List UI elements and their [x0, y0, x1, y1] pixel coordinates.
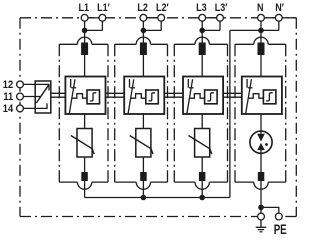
spark gap F4 electrode diagonal	[246, 79, 252, 113]
disconnect terminal top module L2	[140, 43, 147, 56]
wire L3 terminal down to module	[201, 21, 203, 76]
wire L3-prime terminal down	[219, 21, 221, 30]
wire L1 terminal link	[88, 17, 99, 19]
wire N node to PE bus riser	[230, 29, 261, 31]
ground symbol	[256, 220, 267, 232]
terminal L3-prime	[217, 14, 224, 21]
svg-text:N: N	[257, 2, 264, 14]
wire L3 terminal link	[206, 17, 217, 19]
terminal 14	[17, 105, 24, 112]
spark gap F1 electrode diagonal	[69, 79, 75, 113]
wire module L2 bottom to bus	[142, 181, 144, 198]
trigger circuit connection step line	[72, 94, 87, 99]
mechanical link module L1 to module L2	[106, 93, 125, 97]
enclosure border top	[20, 17, 296, 19]
remote signalling contact box	[35, 81, 51, 113]
spark gap F2 electrode tick	[130, 87, 135, 89]
spark gap unit F3 module L3 box	[183, 77, 223, 115]
wire terminal 12 to contact	[24, 84, 49, 90]
node N junction	[258, 28, 264, 34]
module L2 bottom plug-in arc	[136, 182, 150, 189]
terminal N	[258, 14, 265, 21]
terminal ground	[258, 213, 265, 220]
spark gap unit F1 module L1 box	[65, 77, 105, 115]
disconnect terminal top module L3	[199, 43, 206, 56]
disconnect terminal top module N	[258, 43, 265, 56]
varistor R2 module L2	[130, 129, 153, 158]
terminal bottom module L3	[199, 172, 206, 181]
trigger unit step symbol	[266, 93, 273, 101]
spark gap unit F4 module N box	[242, 77, 282, 115]
wire L1-prime terminal down	[101, 21, 103, 30]
terminal bottom module N	[258, 172, 265, 181]
wire terminal 11 to contact	[24, 96, 41, 98]
svg-text:14: 14	[3, 103, 14, 115]
node bus L2 junction	[141, 195, 147, 201]
wire L2 terminal down to module	[142, 21, 144, 76]
terminal 12	[17, 81, 24, 88]
spark gap F3 electrode diagonal	[187, 79, 193, 113]
svg-text:11: 11	[3, 91, 13, 103]
gas discharge tube N-PE	[250, 131, 272, 153]
svg-text:PE: PE	[274, 222, 287, 237]
wire PE bus riser	[229, 30, 231, 197]
varistor R3 module L3	[189, 129, 212, 158]
trigger unit box module N	[263, 90, 276, 104]
wire spark gap to gas discharge tube	[260, 114, 262, 135]
trigger unit step symbol	[90, 93, 97, 101]
trigger unit step symbol	[207, 93, 214, 101]
wire PE node to PE terminal	[261, 207, 279, 213]
terminal PE	[275, 213, 282, 220]
wire L1 terminal down to module	[84, 21, 86, 76]
terminal L2	[140, 14, 147, 21]
wire gas discharge tube to bottom terminal	[260, 150, 262, 172]
wire bottom bus L1-L3	[85, 197, 230, 199]
spark gap F3 electrode lead	[187, 79, 189, 88]
wire N-prime to node	[261, 29, 279, 31]
module N bottom plug-in arc	[254, 182, 268, 189]
module L1 top plug-in arc	[77, 37, 91, 44]
wire N-prime terminal down	[278, 21, 280, 30]
wire L2-prime to node	[143, 29, 161, 31]
terminal L1	[81, 14, 88, 21]
spark gap F4 electrode lead	[246, 79, 248, 88]
mechanical link module L3 to module N	[223, 93, 242, 97]
wire varistor to bottom terminal module L1	[84, 157, 86, 172]
enclosure border bottom right	[282, 216, 296, 218]
trigger unit box module L1	[87, 90, 100, 104]
trigger circuit connection step line	[131, 94, 146, 99]
spark gap unit F2 module L2 box	[124, 77, 164, 115]
module L1 bottom plug-in arc	[77, 182, 91, 189]
terminal bottom module L2	[140, 172, 147, 181]
terminal 11	[17, 93, 24, 100]
mechanical link module L2 to module L3	[164, 93, 183, 97]
wire L3-prime to node	[202, 29, 220, 31]
terminal N-prime	[275, 14, 282, 21]
trigger unit box module L2	[146, 90, 159, 104]
svg-text:N′: N′	[275, 2, 284, 14]
svg-text:L3: L3	[196, 2, 207, 14]
disconnect terminal top module L1	[81, 43, 88, 56]
svg-text:L2: L2	[137, 2, 148, 14]
trigger circuit connection step line	[248, 94, 263, 99]
wire L1-prime to node	[85, 29, 103, 31]
module L1 border box	[59, 44, 108, 182]
wire module N bottom to PE node	[260, 181, 262, 207]
wire terminal 14 to contact	[24, 103, 47, 108]
svg-text:L3′: L3′	[215, 2, 228, 14]
node N-PE junction	[258, 205, 264, 211]
terminal L2-prime	[158, 14, 165, 21]
module N border box	[235, 44, 286, 182]
spark gap F2 electrode diagonal	[128, 79, 134, 113]
svg-text:L1: L1	[79, 2, 90, 14]
node L1 junction	[82, 28, 88, 34]
trigger unit step symbol	[149, 93, 156, 101]
wire spark gap to varistor module L2	[142, 114, 144, 129]
wire spark gap to varistor module L3	[201, 114, 203, 129]
wire varistor to bottom terminal module L3	[201, 157, 203, 172]
node bus L3 junction	[199, 195, 205, 201]
wire module L3 bottom to bus	[201, 181, 203, 198]
switch arm changeover contact	[36, 85, 48, 103]
spark gap F2 electrode lead	[129, 79, 131, 88]
enclosure border right	[295, 18, 297, 217]
wire varistor to bottom terminal module L2	[142, 157, 144, 172]
wire spark gap to varistor module L1	[84, 114, 86, 129]
enclosure border left	[19, 18, 21, 217]
spark gap F1 electrode lead	[70, 79, 72, 88]
trigger circuit connection step line	[190, 94, 205, 99]
varistor R1 module L1	[71, 129, 94, 158]
node L3 junction	[199, 28, 205, 34]
wire N-prime to border corner	[283, 17, 297, 19]
wire PE node to ground terminal	[260, 207, 262, 213]
module L3 top plug-in arc	[195, 37, 209, 44]
svg-text:L1′: L1′	[97, 2, 110, 14]
spark gap F4 electrode tick	[248, 87, 253, 89]
terminal L1-prime	[99, 14, 106, 21]
module L3 bottom plug-in arc	[195, 182, 209, 189]
terminal L3	[199, 14, 206, 21]
terminal bottom module L1	[81, 172, 88, 181]
node L2 junction	[141, 28, 147, 34]
trigger unit box module L3	[205, 90, 218, 104]
wire N terminal down to module	[260, 21, 262, 76]
module N top plug-in arc	[254, 37, 268, 44]
module L2 top plug-in arc	[136, 37, 150, 44]
wire L2-prime terminal down	[160, 21, 162, 30]
svg-text:L2′: L2′	[156, 2, 169, 14]
enclosure border bottom	[20, 216, 258, 218]
wire module L1 bottom to bus	[84, 181, 86, 198]
spark gap F3 electrode tick	[189, 87, 194, 89]
spark gap F1 electrode tick	[71, 87, 76, 89]
mechanical link contact to module L1	[51, 93, 66, 97]
module L2 border box	[115, 44, 168, 182]
wire L2 terminal link	[147, 17, 158, 19]
wire N terminal link	[265, 17, 276, 19]
svg-text:12: 12	[3, 79, 14, 91]
module L3 border box	[174, 44, 227, 182]
